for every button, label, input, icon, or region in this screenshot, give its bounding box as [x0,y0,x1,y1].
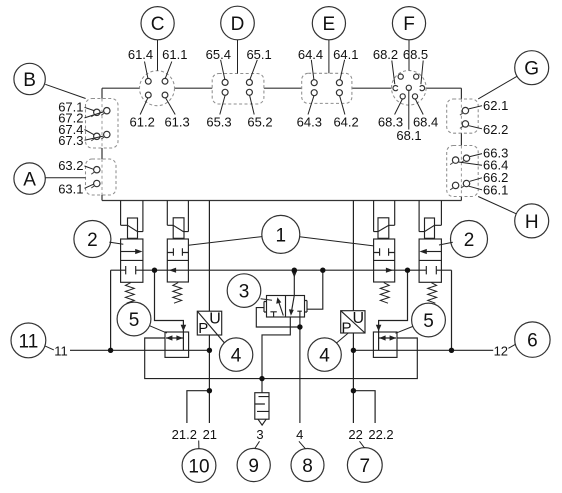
svg-text:63.1: 63.1 [58,182,83,197]
svg-text:U: U [209,311,221,328]
svg-text:G: G [524,59,539,80]
svg-text:7: 7 [360,456,371,477]
svg-text:62.1: 62.1 [483,98,508,113]
svg-text:F: F [403,14,415,35]
svg-text:H: H [525,212,539,233]
svg-text:64.2: 64.2 [333,115,358,130]
svg-text:63.2: 63.2 [58,158,83,173]
svg-text:22.2: 22.2 [368,427,393,442]
svg-text:61.3: 61.3 [164,115,189,130]
svg-text:68.2: 68.2 [373,47,398,62]
svg-text:21.2: 21.2 [172,427,197,442]
svg-text:9: 9 [248,456,259,477]
svg-text:68.1: 68.1 [396,128,421,143]
svg-text:1: 1 [276,225,287,246]
svg-text:22: 22 [348,427,362,442]
svg-text:6: 6 [527,331,538,352]
svg-text:61.1: 61.1 [162,47,187,62]
svg-text:2: 2 [87,230,98,251]
svg-text:64.1: 64.1 [333,47,358,62]
svg-text:E: E [323,14,336,35]
svg-text:68.5: 68.5 [403,47,428,62]
svg-text:66.1: 66.1 [483,183,508,198]
svg-text:P: P [198,320,208,337]
svg-text:2: 2 [464,230,475,251]
svg-text:65.2: 65.2 [247,115,272,130]
svg-text:C: C [151,14,165,35]
svg-text:5: 5 [129,310,140,331]
svg-text:8: 8 [302,456,313,477]
svg-text:11: 11 [19,331,39,352]
svg-text:21: 21 [203,427,217,442]
svg-text:65.1: 65.1 [246,47,271,62]
svg-text:A: A [23,170,36,191]
svg-text:4: 4 [319,346,330,367]
svg-text:67.3: 67.3 [58,133,83,148]
svg-text:3: 3 [256,427,263,442]
svg-text:65.3: 65.3 [206,115,231,130]
svg-text:U: U [353,310,365,327]
svg-text:3: 3 [239,282,250,303]
svg-text:10: 10 [188,457,209,478]
svg-text:4: 4 [231,346,242,367]
svg-text:D: D [231,14,245,35]
svg-text:61.2: 61.2 [130,115,155,130]
svg-text:4: 4 [296,427,303,442]
svg-text:65.4: 65.4 [206,47,231,62]
svg-text:62.2: 62.2 [483,122,508,137]
svg-text:B: B [23,70,36,91]
svg-text:64.3: 64.3 [297,115,322,130]
svg-text:11: 11 [54,344,68,359]
svg-text:61.4: 61.4 [128,47,153,62]
svg-text:P: P [341,320,351,337]
svg-text:64.4: 64.4 [298,47,323,62]
svg-text:5: 5 [423,311,434,332]
svg-text:12: 12 [494,344,508,359]
